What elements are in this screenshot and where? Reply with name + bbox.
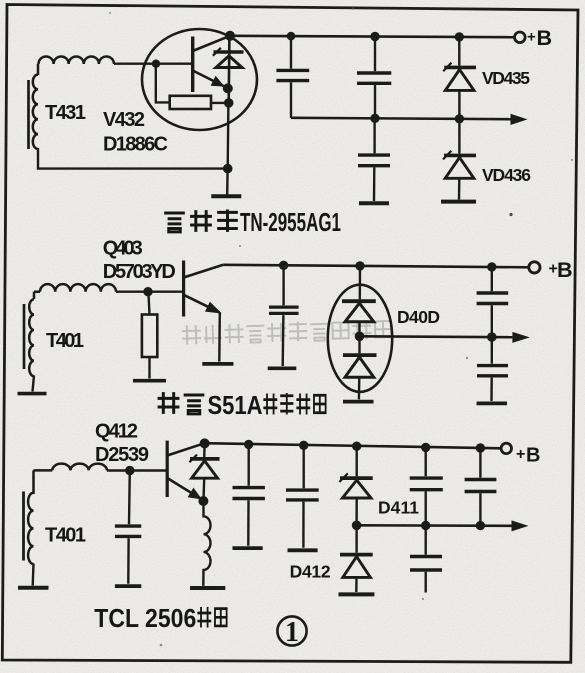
- pulse arrow bottom: [512, 520, 529, 531]
- internal damper diode triangle: [216, 56, 242, 68]
- capacitor C5 plates: [477, 293, 509, 304]
- pulse arrow top: [511, 114, 528, 125]
- wire T431 to base: [114, 63, 193, 65]
- svg-text:D411: D411: [378, 498, 419, 518]
- node Q412 base junction: [125, 466, 134, 475]
- ground Q403 emitter: [202, 362, 233, 366]
- svg-text:B: B: [557, 258, 573, 282]
- emitter inductor: [203, 501, 210, 586]
- transistor V432 emitter arrow: [211, 76, 225, 87]
- capacitor C3 wire to ground: [373, 167, 376, 201]
- svg-text:D2539: D2539: [95, 444, 149, 466]
- +B terminal mid: [529, 262, 540, 273]
- ground emitter inductor: [190, 586, 225, 590]
- damper diode Q412 bar slash: [189, 455, 197, 463]
- transformer T401 bottom horizontal winding: [34, 464, 107, 478]
- secondary pulse rail bottom: [357, 524, 512, 527]
- svg-text:TN-2955AG1: TN-2955AG1: [240, 207, 341, 237]
- diode D40D-1 wire to node: [358, 322, 360, 337]
- svg-text:VD436: VD436: [482, 165, 531, 185]
- capacitor C9 plates: [286, 490, 319, 500]
- wire junction to ground: [226, 169, 229, 195]
- watermark 杭州将睿科技有限公司: [182, 319, 392, 345]
- capacitor C4 plates: [269, 307, 299, 313]
- wire T401 mid to base: [116, 291, 184, 293]
- ground D40D: [343, 400, 374, 404]
- node C5 rail2: [487, 332, 497, 342]
- diode D411 wire to rail2: [355, 498, 358, 525]
- node C10 rail: [421, 443, 430, 452]
- diode D412 triangle: [343, 557, 371, 578]
- diode D411 bar slash: [339, 473, 347, 482]
- transformer T401 mid core: [23, 304, 26, 369]
- node rail2 D411: [352, 521, 362, 531]
- diode D412 wire to ground: [355, 577, 358, 592]
- node VD435 rail: [455, 32, 464, 41]
- capacitor C12 wire end: [425, 572, 427, 593]
- internal damper diode bar slash: [213, 48, 221, 56]
- svg-text:Q403: Q403: [103, 238, 143, 260]
- node D40D rail: [355, 261, 364, 270]
- capacitor C8 plates: [233, 488, 265, 499]
- damper diode Q412 cathode bar: [190, 457, 220, 461]
- capacitor C3 wire: [373, 118, 375, 153]
- capacitor C7 plates: [115, 526, 141, 536]
- secondary pulse rail top: [291, 118, 511, 119]
- transistor V432 envelope circle: [142, 29, 257, 130]
- transistor Q412 base bar: [166, 441, 169, 497]
- node D411 rail: [352, 442, 361, 451]
- diode D40D-2 triangle: [345, 357, 374, 377]
- caption 北京: [158, 392, 205, 414]
- capacitor C1 wire to rail2: [290, 82, 292, 118]
- svg-text:V432: V432: [103, 109, 145, 131]
- transformer T401 bottom core: [22, 492, 25, 561]
- svg-text:D40D: D40D: [397, 307, 440, 327]
- node C8 rail: [244, 440, 253, 449]
- capacitor C11 wire to rail2: [479, 493, 481, 525]
- node C2 rail: [370, 32, 379, 41]
- svg-text:D1886C: D1886C: [103, 134, 168, 156]
- capacitor C4 wire: [282, 265, 284, 305]
- diode VD435 cathode bar: [444, 66, 476, 70]
- ground C7: [115, 584, 141, 588]
- diode D40D-1 cathode bar: [342, 299, 376, 303]
- diode D412 wire: [355, 525, 357, 552]
- capacitor C2 wire: [374, 37, 376, 72]
- svg-text:B: B: [526, 445, 540, 467]
- diode D40D-1 wire: [359, 266, 362, 299]
- secondary pulse rail mid: [360, 335, 513, 339]
- svg-text:T431: T431: [45, 102, 86, 124]
- transformer T401 mid horizontal winding: [34, 284, 116, 299]
- +B terminal bottom: [501, 443, 511, 453]
- ground resistor mid: [133, 379, 166, 383]
- transistor Q403 collector: [184, 265, 224, 278]
- ground C8: [233, 546, 263, 550]
- node C4 rail: [279, 261, 288, 270]
- node C1 rail: [287, 32, 296, 41]
- transistor Q412 collector: [167, 443, 204, 455]
- +B rail mid: [223, 265, 528, 268]
- capacitor C1 plates: [276, 70, 309, 80]
- diode VD435 triangle: [445, 70, 474, 91]
- resistor mid: [142, 315, 157, 358]
- node C5 rail: [487, 262, 496, 271]
- node collector rail: [225, 31, 235, 41]
- internal damper diode vertical wire: [227, 36, 230, 103]
- diode VD436 cathode bar: [444, 154, 476, 158]
- capacitor C6 plates: [477, 366, 508, 376]
- svg-text:+: +: [527, 29, 536, 46]
- capacitor C9 wire to ground: [302, 502, 305, 548]
- ground C9: [288, 548, 318, 552]
- ground top circuit: [211, 194, 241, 198]
- diode D40D-1 triangle: [345, 303, 374, 322]
- figure number 1 circle: [277, 616, 306, 645]
- capacitor C8 wire to ground: [247, 500, 250, 546]
- wire resistor to emitter node: [211, 102, 229, 104]
- diode VD435 wire: [458, 37, 460, 66]
- node emitter: [223, 83, 233, 93]
- diode VD436 triangle: [445, 157, 474, 178]
- svg-text:Q412: Q412: [95, 421, 138, 443]
- ground C6: [477, 401, 507, 405]
- capacitor C7 wire to ground: [127, 538, 130, 584]
- diode D40D-2 cathode bar: [343, 353, 377, 357]
- pulse arrow mid: [512, 332, 529, 343]
- internal damper diode cathode bar: [214, 50, 244, 54]
- caption 高路华: [164, 210, 238, 232]
- svg-text:VD435: VD435: [482, 68, 530, 88]
- capacitor C2 wire to rail2: [374, 85, 376, 118]
- diode D411 cathode bar: [340, 476, 373, 480]
- diode D411 wire: [356, 446, 358, 476]
- transistor V432 emitter: [193, 71, 228, 89]
- wire base node to resistor: [148, 292, 149, 315]
- diode D40D-2 wire: [358, 336, 360, 353]
- capacitor C5 wire to rail2: [491, 305, 493, 337]
- node C9 rail: [299, 441, 308, 450]
- diode VD436 wire to ground: [458, 178, 461, 199]
- wire T431 bottom return: [38, 148, 228, 169]
- diode D40D-2 wire to ground: [358, 377, 361, 399]
- diode VD435 bar slash: [443, 63, 451, 72]
- internal resistor: [170, 96, 211, 109]
- svg-text:B: B: [537, 26, 553, 50]
- damper diode Q412 wire to emitter node: [202, 478, 205, 501]
- transformer T431 core: [27, 80, 30, 149]
- D40D envelope ellipse: [328, 285, 392, 392]
- capacitor C10 plates: [410, 478, 443, 490]
- node Q412 collector: [200, 438, 210, 448]
- svg-text:1: 1: [285, 617, 299, 648]
- transformer T431 horizontal winding: [38, 56, 114, 75]
- transistor Q412 emitter: [167, 478, 202, 500]
- node between D40D diodes: [355, 332, 365, 342]
- caption 彩电 bottom: [197, 607, 226, 628]
- node VD436 rail2: [455, 114, 464, 123]
- diode VD436 bar slash: [443, 151, 451, 160]
- capacitor C11 wire: [479, 448, 481, 478]
- capacitor C1 wire from rail: [290, 36, 292, 69]
- svg-text:T401: T401: [46, 330, 84, 352]
- node resistor-emitter: [224, 98, 234, 108]
- transformer T431 vertical winding: [33, 75, 38, 150]
- ground VD436: [441, 200, 476, 204]
- capacitor C7 wire: [128, 471, 131, 525]
- caption 机芯彩电: [263, 393, 325, 414]
- wire T401 bottom to ground: [32, 564, 35, 586]
- +B rail bottom: [205, 443, 502, 448]
- capacitor C2 plates: [357, 73, 391, 83]
- stray ink specks: [109, 7, 573, 646]
- capacitor C10 wire: [425, 448, 427, 477]
- transformer T401 mid vertical winding: [29, 299, 34, 376]
- capacitor C5 wire: [491, 267, 493, 291]
- capacitor C8 wire: [247, 445, 249, 486]
- node Q412 emitter: [198, 496, 208, 506]
- diode D411 triangle: [342, 480, 371, 498]
- transistor Q412 emitter arrow: [188, 488, 202, 500]
- ground T401 mid: [18, 392, 47, 396]
- node C2 C3 rail2: [370, 114, 379, 123]
- svg-text:D5703YD: D5703YD: [103, 261, 176, 283]
- capacitor C3 plates: [358, 155, 390, 166]
- capacitor C6 wire: [491, 337, 493, 364]
- transistor V432 collector: [193, 36, 230, 51]
- wire T401 mid to ground: [33, 376, 35, 392]
- diode D412 cathode bar: [340, 553, 373, 557]
- wire T401 bottom to base: [107, 469, 167, 471]
- wire emitter down to return: [226, 103, 229, 169]
- node C11 rail2: [476, 521, 485, 530]
- svg-text:+: +: [516, 446, 525, 463]
- svg-text:S51A: S51A: [208, 390, 263, 420]
- svg-text:D412: D412: [290, 562, 331, 582]
- transformer T401 bottom vertical winding: [28, 478, 33, 565]
- wire base to resistor: [156, 66, 170, 102]
- ground T401 bottom: [18, 586, 49, 590]
- diode VD436 wire: [458, 119, 460, 154]
- capacitor C6 wire to ground: [490, 378, 493, 401]
- capacitor C12 wire below rail2: [425, 526, 427, 555]
- node base junction: [152, 60, 160, 68]
- node C10 rail2: [421, 521, 430, 530]
- svg-text:TCL 2506: TCL 2506: [94, 603, 196, 633]
- transistor Q403 emitter: [184, 295, 220, 313]
- transistor Q403 emitter arrow: [205, 302, 222, 314]
- capacitor C11 plates: [465, 480, 497, 492]
- +B terminal top: [515, 32, 526, 43]
- capacitor C4 wire to ground: [282, 315, 285, 366]
- capacitor C12 plates: [410, 557, 442, 571]
- svg-text:T401: T401: [45, 525, 86, 547]
- ground C3: [359, 201, 389, 205]
- ground C4: [268, 366, 297, 370]
- damper diode Q412 triangle: [192, 461, 218, 478]
- node Q403 base junction: [143, 287, 152, 296]
- wire resistor to ground: [148, 357, 150, 379]
- node C11 rail: [476, 443, 485, 452]
- ground D412: [339, 592, 375, 596]
- node bottom return junction: [223, 164, 233, 174]
- damper diode Q412 wire: [203, 443, 206, 459]
- +B rail top: [230, 36, 515, 37]
- transistor V432 base bar: [191, 37, 194, 93]
- transistor Q403 base bar: [182, 261, 185, 317]
- diode VD435 wire to rail2: [458, 90, 460, 118]
- capacitor C10 wire to rail2: [425, 492, 427, 526]
- wire Q403 emitter down: [218, 313, 221, 362]
- capacitor C9 wire: [303, 445, 305, 488]
